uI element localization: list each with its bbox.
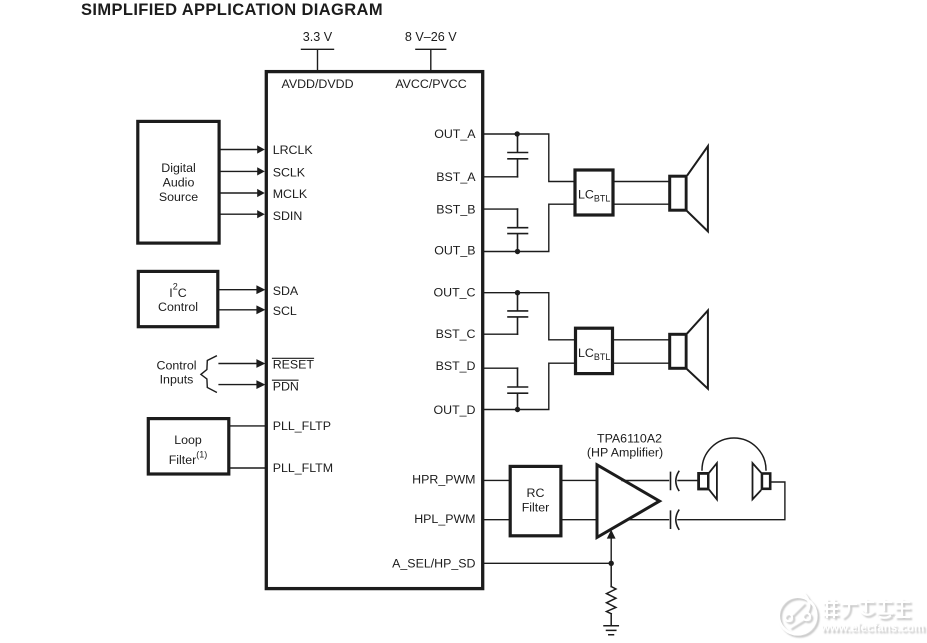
op-amp U2 TPA6110A2 — [597, 465, 660, 538]
svg-text:Filter: Filter — [522, 501, 550, 515]
RC filter box — [510, 466, 561, 535]
svg-text:PLL_FLTP: PLL_FLTP — [273, 419, 331, 433]
wire BST_B — [484, 208, 517, 210]
LC BTL filter 1 — [575, 170, 613, 215]
svg-text:LRCLK: LRCLK — [273, 143, 314, 157]
svg-text:OUT_D: OUT_D — [434, 403, 476, 417]
wire SDIN with arrow — [221, 210, 265, 218]
wire SDA with arrow — [219, 285, 265, 294]
wire cap to left earpiece — [678, 480, 697, 482]
wire SCLK with arrow — [221, 167, 265, 175]
svg-text:BST_D: BST_D — [436, 359, 476, 373]
svg-text:3.3 V: 3.3 V — [303, 30, 333, 44]
wire PDN with arrow — [219, 380, 265, 389]
svg-text:PLL_FLTM: PLL_FLTM — [273, 461, 333, 475]
svg-text:Source: Source — [159, 190, 198, 204]
svg-text:SDA: SDA — [273, 284, 299, 298]
svg-text:OUT_B: OUT_B — [434, 244, 475, 258]
junction OUT_C node — [515, 290, 520, 295]
svg-text:Control: Control — [158, 300, 198, 314]
junction OUT_B node — [515, 249, 520, 254]
svg-text:HPL_PWM: HPL_PWM — [414, 512, 475, 526]
wire LRCLK with arrow — [221, 145, 265, 153]
svg-text:SCLK: SCLK — [273, 165, 306, 179]
power 3.3 V supply — [302, 30, 334, 70]
svg-text:Audio: Audio — [163, 176, 195, 190]
wire OUT_A — [484, 134, 573, 182]
brace — [201, 356, 216, 392]
digital audio source box — [138, 121, 219, 243]
speaker 2 — [670, 311, 708, 389]
wire PLL_FLTM — [230, 467, 266, 469]
svg-text:AVDD/DVDD: AVDD/DVDD — [281, 77, 353, 91]
svg-text:8 V–26 V: 8 V–26 V — [405, 30, 457, 44]
watermark logo and text (embossed) — [779, 594, 927, 637]
wire A_SEL to op-amp with arrow — [607, 530, 616, 564]
power 8 V-26 V supply — [405, 30, 457, 70]
wire OUT_C — [484, 293, 574, 340]
svg-text:Inputs: Inputs — [160, 373, 194, 387]
svg-text:PDN: PDN — [273, 380, 299, 394]
svg-text:Loop: Loop — [174, 433, 202, 447]
svg-text:(HP Amplifier): (HP Amplifier) — [587, 446, 663, 460]
svg-text:BST_B: BST_B — [436, 202, 475, 216]
headphone right earpiece — [753, 463, 771, 499]
junction OUT_A node — [515, 131, 520, 136]
svg-text:SCL: SCL — [273, 304, 297, 318]
capacitor HPL coupling — [671, 510, 679, 529]
I2C control box — [138, 271, 218, 326]
svg-text:SDIN: SDIN — [273, 209, 303, 223]
wire SCL with arrow — [219, 305, 265, 314]
svg-text:MCLK: MCLK — [273, 187, 308, 201]
pin PDN (active low) — [273, 380, 299, 394]
capacitor BST_C bootstrap — [508, 293, 528, 335]
svg-text:TPA6110A2: TPA6110A2 — [597, 432, 662, 446]
wire OUT_D — [484, 363, 574, 409]
wire HPL_PWM — [484, 519, 597, 521]
svg-text:SIMPLIFIED APPLICATION DIAGRAM: SIMPLIFIED APPLICATION DIAGRAM — [81, 1, 383, 19]
svg-text:Digital: Digital — [161, 161, 195, 175]
svg-text:HPR_PWM: HPR_PWM — [412, 473, 475, 487]
LC BTL filter 2 — [576, 328, 613, 373]
svg-text:RC: RC — [527, 486, 545, 500]
control inputs label — [157, 359, 197, 387]
wire LCBTL2 to speaker2 — [614, 340, 668, 363]
ground — [604, 626, 618, 635]
IC block U1 — [266, 72, 482, 589]
wire HPR output — [622, 480, 669, 482]
wire RESET with arrow — [219, 359, 265, 368]
svg-text:AVCC/PVCC: AVCC/PVCC — [395, 77, 466, 91]
junction OUT_D node — [515, 407, 520, 412]
wire BST_A — [484, 176, 517, 178]
headphone headband — [702, 438, 766, 470]
svg-text:RESET: RESET — [273, 358, 315, 372]
wire A_SEL/HP_SD — [484, 562, 611, 564]
wire MCLK with arrow — [221, 189, 265, 197]
wire HPR_PWM — [484, 479, 597, 481]
svg-text:BST_C: BST_C — [436, 327, 476, 341]
svg-text:Control: Control — [157, 359, 197, 373]
wire PLL_FLTP — [230, 425, 266, 427]
speaker 1 — [670, 146, 708, 231]
svg-text:BST_A: BST_A — [436, 170, 476, 184]
resistor R1 — [607, 563, 616, 625]
svg-text:A_SEL/HP_SD: A_SEL/HP_SD — [392, 557, 475, 571]
wire OUT_B — [484, 204, 573, 251]
wire cap to right earpiece — [678, 482, 785, 520]
capacitor BST_B bootstrap — [508, 209, 528, 251]
wire LCBTL1 to speaker1 — [615, 182, 669, 205]
pin RESET (active low) — [273, 358, 315, 372]
headphone left earpiece — [699, 463, 717, 499]
loop filter box — [148, 419, 229, 474]
capacitor HPR coupling — [671, 471, 679, 490]
junction A_SEL node — [609, 561, 614, 566]
svg-text:OUT_A: OUT_A — [434, 127, 476, 141]
wire HPL output — [628, 519, 669, 521]
wire BST_C — [484, 333, 517, 335]
capacitor BST_A bootstrap — [508, 134, 528, 177]
wire BST_D — [484, 367, 517, 369]
svg-text:OUT_C: OUT_C — [434, 285, 476, 299]
capacitor BST_D bootstrap — [508, 368, 528, 409]
